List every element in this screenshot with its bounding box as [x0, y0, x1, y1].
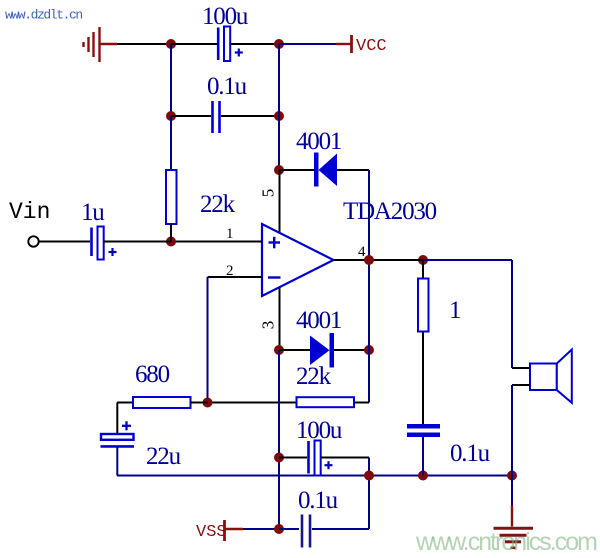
junction (171,241.5) [166, 237, 176, 247]
junction (279,457.5) [274, 453, 284, 463]
wire vertical left (171,44)-(171,116) [170, 44, 172, 116]
svg-text:2: 2 [226, 263, 234, 279]
junction (423,475.5) [418, 471, 428, 481]
ground GND1 top-left [84, 27, 118, 62]
junction (512,475.5) [507, 471, 517, 481]
svg-text:1: 1 [449, 297, 460, 324]
power VSS [196, 520, 279, 542]
resistor 22k horizontal feedback [208, 397, 370, 407]
svg-text:4001: 4001 [296, 128, 341, 155]
junction (423,260) [418, 255, 428, 265]
svg-text:1: 1 [226, 226, 234, 242]
svg-text:www.dzdlt.cn: www.dzdlt.cn [5, 8, 82, 23]
resistor 680 [117, 397, 208, 408]
svg-text:3: 3 [259, 321, 278, 330]
svg-text:22k: 22k [200, 191, 236, 218]
node Vin terminal [9, 199, 90, 247]
wire (369,170)-(369,260) [368, 170, 370, 260]
pin 1 wire [171, 241, 262, 243]
wire (117,402.5)-(117,432) [116, 403, 118, 435]
wire speaker bottom lead [512, 385, 530, 476]
junction (279,350) [274, 345, 284, 355]
ground GND2 bottom-right [494, 476, 534, 548]
capacitor 100u bottom [279, 441, 369, 476]
capacitor 22u [101, 421, 135, 446]
svg-text:Vin: Vin [9, 199, 50, 225]
junction (207.5,402.5) [203, 398, 213, 408]
svg-text:1u: 1u [81, 199, 105, 226]
svg-text:0.1u: 0.1u [207, 73, 248, 100]
svg-text:VCC: VCC [356, 37, 387, 56]
junction (171,44) [166, 39, 176, 49]
junction (279,44) [274, 39, 284, 49]
capacitor 0.1u VSS [279, 515, 369, 548]
op-amp plus sign [269, 237, 281, 249]
svg-text:VSS: VSS [196, 523, 227, 542]
wire speaker top lead [512, 260, 530, 368]
svg-text:100u: 100u [296, 417, 343, 444]
junction (369,260) [364, 255, 374, 265]
junction (279,116) [274, 111, 284, 121]
wire vertical (279,44)-(279,170) [278, 44, 280, 170]
pin 4 wire output [334, 259, 513, 261]
op-amp U1 TDA2030 triangle [262, 224, 334, 296]
pin 2 wire [208, 277, 263, 403]
capacitor 1u input [92, 227, 172, 260]
svg-text:22k: 22k [296, 363, 332, 390]
svg-text:www.cntronics.com: www.cntronics.com [415, 528, 597, 556]
pin 3 wire [279, 288, 281, 351]
wire (369,350)-(369,402.5) [368, 350, 370, 403]
junction (279,529) [274, 524, 284, 534]
capacitor 0.1u speaker [407, 424, 440, 476]
svg-text:5: 5 [259, 189, 278, 198]
capacitor 0.1u top [171, 101, 279, 133]
wire to VCC [279, 43, 336, 45]
pin 5 wire [279, 170, 281, 233]
wire (117,446)-(117,475.5) and bottom rail [117, 447, 512, 476]
capacitor 100u top [171, 27, 279, 62]
resistor 1 [418, 260, 429, 424]
svg-text:0.1u: 0.1u [298, 487, 339, 514]
diode D2 4001 lower [279, 333, 369, 368]
speaker LS1 [530, 350, 572, 403]
wire vertical (279,350)-(279,529) [278, 350, 280, 529]
diode D1 4001 top [279, 153, 369, 187]
junction (171,116) [166, 111, 176, 121]
svg-text:4001: 4001 [296, 307, 341, 334]
power VCC [336, 35, 387, 56]
svg-text:100u: 100u [202, 3, 249, 30]
wire (369,457.5)-(369,529) [368, 458, 370, 530]
junction (369,475.5) [364, 471, 374, 481]
resistor 22k vertical [166, 116, 177, 242]
junction (369,350) [364, 345, 374, 355]
wire (369,260)-(369,350) [368, 260, 370, 350]
svg-text:TDA2030: TDA2030 [343, 198, 437, 225]
wire top rail left [117, 43, 171, 45]
junction (279,170) [274, 165, 284, 175]
op-amp minus sign [268, 276, 281, 278]
svg-text:22u: 22u [146, 443, 182, 470]
svg-text:680: 680 [135, 361, 170, 388]
svg-text:0.1u: 0.1u [450, 440, 491, 467]
